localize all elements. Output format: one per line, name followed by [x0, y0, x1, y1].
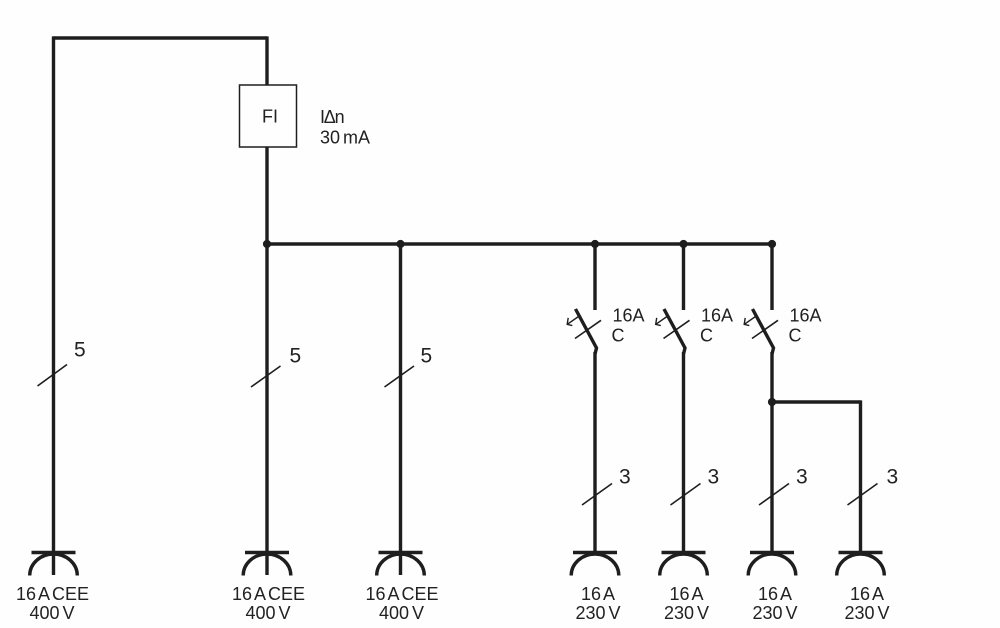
svg-text:16A: 16A — [790, 306, 822, 326]
breaker F1: trip arrow shaft — [568, 317, 579, 325]
socket X7: socket outlet dome arc — [837, 554, 885, 576]
wire: drop from top feeder into RCD — [265, 36, 268, 85]
wire: breaker F2 output down to socket X5 — [682, 352, 685, 553]
socket X6: socket outlet dome arc — [748, 554, 796, 575]
svg-text:230 V: 230 V — [575, 603, 620, 623]
svg-text:30 mA: 30 mA — [320, 128, 370, 148]
node E: junction dot bus end / breaker F3 — [768, 240, 776, 248]
socket X5: socket outlet dome arc — [660, 554, 708, 576]
conductor-count slash (3 wires) on X5 drop — [671, 484, 701, 506]
breaker F2: upper terminal wire from node D — [682, 244, 685, 310]
breaker F3: breaker cross stroke — [752, 320, 778, 338]
socket X1: CEE socket outlet tangent bar — [32, 551, 76, 554]
socket X7: socket outlet tangent bar — [839, 551, 883, 554]
breaker F1: switch blade — [576, 309, 597, 354]
wire: RCD output down to bus node A — [265, 147, 268, 244]
svg-text:5: 5 — [421, 345, 433, 368]
breaker F3: upper terminal wire from node E — [770, 244, 773, 310]
breaker F1: trip arrow head — [567, 318, 572, 326]
svg-text:16 A: 16 A — [581, 584, 615, 604]
svg-text:16A: 16A — [701, 306, 733, 326]
svg-text:16 A CEE: 16 A CEE — [365, 584, 438, 604]
svg-text:16A: 16A — [613, 306, 645, 326]
socket X6: socket outlet tangent bar — [750, 551, 794, 554]
node B: junction dot bus / socket X3 drop — [396, 240, 404, 248]
socket X3: CEE socket outlet tangent bar — [379, 551, 423, 554]
wire: branch vertical down to socket X7 — [859, 400, 862, 553]
svg-text:16 A: 16 A — [850, 584, 884, 604]
svg-text:IΔn: IΔn — [320, 107, 344, 127]
svg-text:C: C — [789, 326, 802, 346]
breaker F2: trip arrow head — [656, 318, 661, 326]
svg-text:230 V: 230 V — [844, 603, 889, 623]
svg-text:5: 5 — [74, 339, 86, 362]
wire: left feeder vertical to socket X1 — [52, 36, 55, 575]
breaker F1: upper terminal wire from node C — [593, 244, 596, 310]
svg-text:C: C — [700, 326, 713, 346]
breaker F2: trip arrow shaft — [656, 317, 667, 325]
socket X2: CEE socket outlet tangent bar — [245, 551, 289, 554]
svg-text:400 V: 400 V — [379, 603, 424, 623]
breaker F1: breaker cross stroke — [575, 320, 601, 338]
breaker F3: switch blade — [753, 309, 774, 354]
wire: breaker F1 output down to socket X4 — [593, 352, 596, 553]
svg-text:230 V: 230 V — [752, 603, 797, 623]
socket X2: CEE socket outlet dome arc — [243, 554, 291, 575]
conductor-count slash (5 wires) on X3 drop — [385, 366, 415, 387]
svg-text:5: 5 — [290, 345, 302, 368]
wire: drop from node B to socket X3 — [399, 244, 402, 575]
svg-text:16 A CEE: 16 A CEE — [16, 584, 89, 604]
bus wire: main distribution bus — [267, 242, 774, 245]
socket X5: socket outlet tangent bar — [662, 551, 706, 554]
socket X3: CEE socket outlet dome arc — [377, 554, 425, 575]
svg-text:16 A: 16 A — [758, 584, 792, 604]
breaker F3: trip arrow shaft — [745, 317, 756, 325]
wire: branch horizontal from node F to socket X7 drop — [772, 400, 861, 403]
svg-text:16 A: 16 A — [669, 584, 703, 604]
svg-text:16 A CEE: 16 A CEE — [232, 584, 305, 604]
svg-text:3: 3 — [796, 466, 808, 489]
conductor-count slash (3 wires) on X4 drop — [582, 484, 612, 506]
node D: junction dot bus / breaker F2 — [679, 240, 687, 248]
socket X1: CEE socket outlet dome arc — [30, 554, 78, 575]
svg-text:FI: FI — [262, 107, 278, 127]
svg-text:230 V: 230 V — [664, 603, 709, 623]
svg-text:3: 3 — [619, 466, 631, 489]
conductor-count slash (5 wires) on left feeder — [38, 365, 68, 387]
svg-text:400 V: 400 V — [29, 603, 74, 623]
node F: junction dot branch to socket X7 — [768, 398, 776, 406]
conductor-count slash (3 wires) on X6 drop — [759, 484, 789, 506]
RCD FI: rectangle body — [240, 85, 297, 147]
wire: drop from node A to socket X2 — [265, 244, 268, 575]
breaker F2: switch blade — [664, 309, 685, 354]
breaker F2: breaker cross stroke — [664, 320, 690, 338]
svg-text:3: 3 — [708, 466, 720, 489]
conductor-count slash (3 wires) on X7 drop — [848, 484, 878, 506]
node C: junction dot bus / breaker F1 — [591, 240, 599, 248]
socket X4: socket outlet tangent bar — [573, 551, 617, 554]
svg-text:C: C — [612, 326, 625, 346]
socket X4: socket outlet dome arc — [571, 554, 619, 575]
wire: breaker F3 output down to socket X6 — [770, 352, 773, 553]
svg-text:400 V: 400 V — [245, 603, 290, 623]
breaker F3: trip arrow head — [744, 318, 749, 326]
svg-text:3: 3 — [887, 466, 899, 489]
node A: junction dot bus / RCD / socket X2 drop — [263, 240, 271, 248]
wire: top feeder horizontal from left CEE drop to RCD drop — [54, 36, 268, 39]
conductor-count slash (5 wires) on X2 drop — [251, 366, 281, 387]
